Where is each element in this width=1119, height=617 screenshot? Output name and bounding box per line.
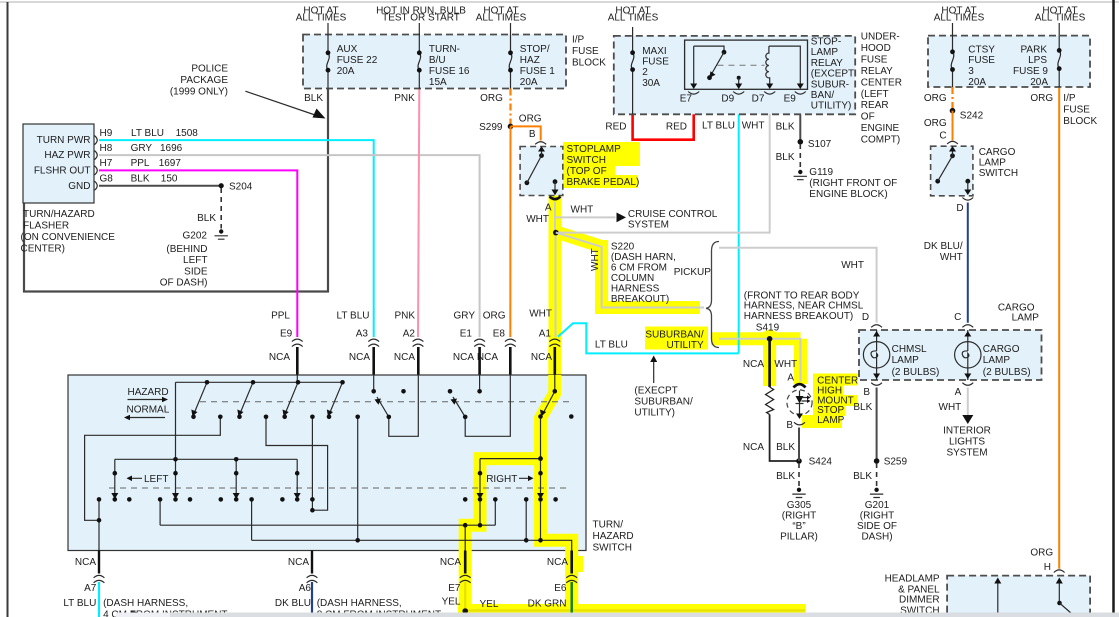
svg-text:YEL: YEL <box>442 597 461 608</box>
node S419 <box>767 336 773 342</box>
stop-lamp relay inner box <box>685 40 808 89</box>
police package arrow <box>245 91 318 116</box>
svg-text:PACKAGE: PACKAGE <box>180 75 228 86</box>
A7 exit wire <box>98 551 100 574</box>
svg-text:BLK: BLK <box>853 402 872 413</box>
svg-text:PNK: PNK <box>394 310 415 321</box>
svg-text:(LEFT: (LEFT <box>861 89 889 100</box>
svg-text:INTERIOR: INTERIOR <box>943 426 991 437</box>
svg-text:ALL TIMES: ALL TIMES <box>608 13 659 24</box>
svg-text:2: 2 <box>642 67 648 78</box>
svg-text:SIDE OF: SIDE OF <box>857 521 897 532</box>
wire WHT cargo lamp A to interior lights <box>967 388 969 417</box>
label interior lights system <box>943 426 991 459</box>
node S242 <box>950 108 956 114</box>
svg-text:HAZARD: HAZARD <box>128 387 169 398</box>
cruise control arrow <box>617 213 627 223</box>
svg-text:NCA: NCA <box>288 557 309 568</box>
svg-text:(DASH HARNESS,: (DASH HARNESS, <box>103 598 188 609</box>
wire WHT to cruise control <box>556 216 616 218</box>
relay D9 pin <box>737 76 741 80</box>
highlight: S419 NCA wire <box>763 339 776 386</box>
svg-text:RELAY: RELAY <box>811 58 843 69</box>
NCA stubs into switch box <box>297 347 555 375</box>
svg-text:ALL TIMES: ALL TIMES <box>476 13 527 24</box>
wire WHT S220 to pickup/suburban brace <box>556 233 704 308</box>
svg-text:FUSE 16: FUSE 16 <box>429 66 470 77</box>
wire LT BLU relay D9 down and to A1 junction <box>558 96 739 353</box>
E6 exit path <box>541 540 572 550</box>
svg-text:WHT: WHT <box>571 205 594 216</box>
svg-text:TURN/: TURN/ <box>593 520 624 531</box>
turn/hazard flasher box <box>23 124 94 203</box>
label hot at all times (ctsy) <box>934 6 985 24</box>
svg-text:D: D <box>956 203 963 214</box>
svg-text:H9: H9 <box>100 128 113 139</box>
svg-text:PPL: PPL <box>131 158 150 169</box>
svg-text:ORG: ORG <box>483 310 506 321</box>
wire WHT stoplamp A to S220 <box>554 202 557 338</box>
svg-text:COMPT): COMPT) <box>861 135 900 146</box>
cargo switch pin D <box>965 179 970 184</box>
svg-text:ENGINE BLOCK): ENGINE BLOCK) <box>809 189 887 200</box>
svg-text:SIDE: SIDE <box>184 266 208 277</box>
svg-text:G202: G202 <box>183 231 208 242</box>
svg-text:A6: A6 <box>299 583 312 594</box>
highlight: SUBURBAN/UTILITY label <box>645 327 708 350</box>
highlight: center high mount stop lamp label <box>813 374 857 386</box>
flasher pin arcs H9 H8 H7 G8 <box>95 136 98 191</box>
svg-text:A2: A2 <box>403 328 416 339</box>
fuse STOP/HAZ FUSE 1 feed wire <box>510 23 512 89</box>
svg-text:FUSE: FUSE <box>572 46 599 57</box>
svg-text:E7: E7 <box>680 93 693 104</box>
A3 stub and blade <box>374 375 419 436</box>
fuse TURN-B/U FUSE 16 feed wire <box>418 23 420 89</box>
svg-text:A7: A7 <box>84 583 97 594</box>
switch blade arrowheads <box>111 399 546 500</box>
A6 exit wire <box>311 551 313 574</box>
wire ORG S242 to cargo lamp switch C <box>952 111 954 141</box>
wire BLK S424 to G305 (dashed) <box>798 463 800 487</box>
wire BLK 150: flasher G8 to S204 <box>99 185 221 187</box>
wire BLK stop lamp B to S424 <box>798 428 800 462</box>
svg-text:BLOCK: BLOCK <box>1063 116 1097 127</box>
highlight: stoplamp switch label <box>563 142 640 166</box>
svg-text:DK GRN: DK GRN <box>528 599 567 610</box>
svg-text:BLK: BLK <box>131 173 150 184</box>
svg-text:20A: 20A <box>1030 77 1048 88</box>
fuse CTSY FUSE 3 <box>951 52 954 70</box>
svg-text:CENTER: CENTER <box>861 77 902 88</box>
svg-text:OF DASH): OF DASH) <box>160 278 208 289</box>
svg-text:AUX: AUX <box>337 44 358 55</box>
label G201 and location <box>857 500 897 543</box>
svg-text:PNK: PNK <box>394 93 415 104</box>
svg-text:G8: G8 <box>100 173 114 184</box>
svg-text:A1: A1 <box>539 328 552 339</box>
fuse AUX FUSE 22 <box>327 53 330 70</box>
wire DK BLU/WHT cargo switch D to cargo lamp C <box>967 203 969 323</box>
svg-text:(BEHIND: (BEHIND <box>166 244 207 255</box>
svg-text:STOP-: STOP- <box>811 37 841 48</box>
right border line <box>1112 0 1115 617</box>
svg-text:BLK: BLK <box>776 152 795 163</box>
svg-text:POLICE: POLICE <box>191 63 228 74</box>
wire GRY 1696: flasher H8 to E1 <box>99 155 480 337</box>
svg-text:ORG: ORG <box>1030 93 1053 104</box>
svg-text:DK BLU: DK BLU <box>275 598 311 609</box>
wire DK GRN below E6 <box>571 582 573 617</box>
connector E9 <box>292 339 303 346</box>
svg-text:150: 150 <box>161 173 178 184</box>
svg-text:S204: S204 <box>229 182 253 193</box>
node S107 <box>798 139 804 145</box>
svg-text:G201: G201 <box>865 500 890 511</box>
svg-text:S107: S107 <box>808 139 832 150</box>
svg-text:CARGO: CARGO <box>983 344 1020 355</box>
svg-text:FUSE: FUSE <box>968 55 995 66</box>
svg-text:STOPLAMP: STOPLAMP <box>567 144 622 155</box>
svg-text:NCA: NCA <box>531 352 552 363</box>
svg-text:1508: 1508 <box>176 128 199 139</box>
svg-text:G119: G119 <box>809 167 833 178</box>
wire ORG S299 branch to stoplamp switch B <box>511 126 541 140</box>
svg-text:BLK: BLK <box>776 442 795 453</box>
hazard blades row1 <box>194 382 343 413</box>
connector CARGO C socket <box>962 325 973 328</box>
bottom scrollbar strip <box>116 613 170 617</box>
svg-text:S220: S220 <box>611 242 635 253</box>
label G305 and location <box>780 500 818 543</box>
fuse MAXI FUSE 2 <box>631 53 634 70</box>
highlight: A1 path inside turn/hazard switch <box>541 375 572 552</box>
I/P fuse block (left) <box>303 35 566 89</box>
wire NCA S419 to resistor to S424 <box>768 339 771 387</box>
resistor (NCA) <box>766 387 774 415</box>
svg-text:E7: E7 <box>448 583 461 594</box>
svg-text:BLK: BLK <box>197 213 216 224</box>
svg-text:ORG: ORG <box>480 93 503 104</box>
dimmer switch arrows <box>997 581 999 617</box>
relay coil top link and E9 pin <box>769 46 800 86</box>
svg-text:TURN/HAZARD: TURN/HAZARD <box>23 209 95 220</box>
svg-text:LT BLU: LT BLU <box>595 340 628 351</box>
ground G201 <box>874 488 878 492</box>
svg-text:E9: E9 <box>280 328 293 339</box>
svg-text:ORG: ORG <box>519 113 542 124</box>
svg-text:B: B <box>863 387 870 398</box>
highlight: E7 / E6 NCA exits <box>465 551 572 582</box>
svg-text:FUSE 1: FUSE 1 <box>520 66 555 77</box>
highlight: A1 connector to switch box <box>548 346 561 376</box>
E7 exit wire <box>464 551 467 574</box>
svg-text:PARK: PARK <box>1021 44 1048 55</box>
connector E1 <box>474 339 485 346</box>
cargo lamp switch box <box>931 146 973 196</box>
svg-text:H7: H7 <box>100 158 113 169</box>
svg-text:DASH): DASH) <box>861 532 892 543</box>
node S259 <box>874 458 880 464</box>
node S424 <box>796 458 802 464</box>
svg-text:(DASH HARN,: (DASH HARN, <box>611 252 676 263</box>
svg-text:20A: 20A <box>968 77 986 88</box>
right row <box>480 459 541 526</box>
bottom small arrow <box>116 613 132 615</box>
svg-text:CENTER): CENTER) <box>21 244 65 255</box>
wire WHT relay D7 down to S220 <box>558 96 770 232</box>
svg-text:BAN/: BAN/ <box>811 90 835 101</box>
svg-text:E6: E6 <box>554 583 567 594</box>
svg-text:E1: E1 <box>460 328 473 339</box>
relay dashed link <box>718 64 765 66</box>
svg-text:WHT: WHT <box>529 308 552 319</box>
svg-text:E8: E8 <box>493 328 506 339</box>
wire PNK: turn-b/u fuse 16 to A2 <box>418 89 419 338</box>
svg-text:LPS: LPS <box>1028 55 1047 66</box>
pickup/suburban brace <box>706 242 719 348</box>
svg-text:BLK: BLK <box>776 122 795 133</box>
svg-text:NORMAL: NORMAL <box>127 405 170 416</box>
svg-text:ORG: ORG <box>924 93 947 104</box>
switch dashed row 1 <box>200 401 569 403</box>
connector CHMSL D socket <box>871 325 882 328</box>
highlight: stoplamp A pin / WHT wire down to S220 and A1 <box>549 173 562 346</box>
fuse PARK LPS FUSE 9 feed wire <box>1058 23 1060 87</box>
svg-text:LT BLU: LT BLU <box>702 121 735 132</box>
relay blade <box>722 50 727 55</box>
stoplamp switch pin B socket <box>535 142 546 145</box>
wire RED maxi fuse to relay E7 <box>633 96 694 140</box>
svg-text:LEFT: LEFT <box>183 255 207 266</box>
connector CHMSL B socket <box>871 383 882 386</box>
svg-text:FUSE: FUSE <box>1063 105 1090 116</box>
svg-text:D9: D9 <box>721 93 734 104</box>
TURN/HAZARD-SWITCH-BOX <box>68 375 586 551</box>
svg-text:RIGHT: RIGHT <box>486 474 517 485</box>
svg-text:I/P: I/P <box>1063 93 1076 104</box>
label hot at all times (aux) <box>296 6 347 24</box>
connector cargo switch D socket <box>962 198 973 201</box>
relay pin sockets E7 D9 D7 E9 <box>688 92 806 95</box>
label police package <box>170 63 229 97</box>
svg-text:A3: A3 <box>356 328 369 339</box>
svg-text:GND: GND <box>68 181 90 192</box>
center high mount stop lamp (LED) <box>787 390 812 415</box>
svg-text:WHT: WHT <box>590 248 601 271</box>
svg-text:S424: S424 <box>809 457 833 468</box>
wire BLK relay E9 to S107 <box>799 96 801 142</box>
connector row color labels <box>271 308 552 321</box>
svg-text:NCA: NCA <box>440 557 461 568</box>
svg-text:FLASHER: FLASHER <box>23 221 69 232</box>
fuse STOP/HAZ FUSE 1 <box>509 53 512 70</box>
SWITCH-INTERNALS <box>85 375 572 551</box>
svg-text:BLK: BLK <box>776 471 795 482</box>
svg-text:LAMP: LAMP <box>983 355 1011 366</box>
svg-text:LT BLU: LT BLU <box>131 128 164 139</box>
svg-text:NCA: NCA <box>743 442 764 453</box>
svg-text:(RIGHT: (RIGHT <box>782 511 816 522</box>
svg-text:HARNESS: HARNESS <box>611 284 660 295</box>
label hot at all times (maxi) <box>608 6 659 24</box>
svg-text:B/U: B/U <box>429 55 446 66</box>
svg-text:FUSE: FUSE <box>642 57 669 68</box>
switch internal dots <box>97 380 574 543</box>
svg-text:SUBURBAN/: SUBURBAN/ <box>634 396 693 407</box>
svg-text:(2 BULBS): (2 BULBS) <box>892 367 940 378</box>
svg-text:LAMP: LAMP <box>1012 313 1040 324</box>
top border line <box>0 1 1119 3</box>
highlight: YEL wire bottom run <box>458 582 806 611</box>
label PARK LPS FUSE 9 20A <box>1013 44 1048 87</box>
switch dashed row 2 <box>109 487 569 489</box>
headlamp and panel dimmer switch box <box>947 576 1090 617</box>
E6 exit wire <box>570 551 573 574</box>
svg-text:TURN PWR: TURN PWR <box>37 135 91 146</box>
highlight: S419 WHT wire <box>711 339 801 384</box>
svg-text:D7: D7 <box>752 93 765 104</box>
svg-text:LAMP: LAMP <box>811 47 839 58</box>
connector A1 <box>549 339 560 346</box>
wire BLK S204 to G202 (dashed) <box>220 188 222 229</box>
highlight: E6 DK GRN stub <box>565 582 578 612</box>
svg-text:SYSTEM: SYSTEM <box>946 447 987 458</box>
svg-text:NCA: NCA <box>547 557 568 568</box>
fuse AUX FUSE 22 feed wire <box>327 23 329 89</box>
svg-text:PILLAR): PILLAR) <box>780 532 818 543</box>
svg-text:1696: 1696 <box>160 143 183 154</box>
svg-text:ALL TIMES: ALL TIMES <box>934 13 985 24</box>
svg-text:LT BLU: LT BLU <box>337 310 370 321</box>
svg-text:CARGO: CARGO <box>979 147 1016 158</box>
svg-text:WHT: WHT <box>841 260 864 271</box>
relay D7 pin <box>768 78 771 87</box>
svg-text:GRY: GRY <box>131 143 153 154</box>
svg-text:UTILITY): UTILITY) <box>811 101 852 112</box>
CHMSL bulb <box>863 342 889 368</box>
svg-text:B: B <box>786 420 793 431</box>
svg-text:NCA: NCA <box>743 359 764 370</box>
top bus <box>176 381 345 383</box>
svg-text:LT BLU: LT BLU <box>63 598 96 609</box>
svg-text:A: A <box>545 203 552 214</box>
svg-text:PICKUP: PICKUP <box>674 267 712 278</box>
A1 stub and blade <box>543 375 555 414</box>
highlight: S220 branch wire <box>553 231 600 246</box>
hazard/normal arrows <box>128 400 166 418</box>
svg-text:ALL TIMES: ALL TIMES <box>1035 13 1086 24</box>
ground G119 <box>798 170 802 174</box>
connector A2 <box>413 339 424 346</box>
svg-text:C: C <box>939 130 946 141</box>
svg-text:HAZARD: HAZARD <box>593 531 634 542</box>
svg-text:WHT: WHT <box>526 214 549 225</box>
svg-text:20A: 20A <box>520 77 538 88</box>
svg-text:D: D <box>862 312 869 323</box>
svg-text:ENGINE: ENGINE <box>861 123 900 134</box>
underhood fuse relay center box <box>614 36 855 114</box>
svg-text:RED: RED <box>605 122 626 133</box>
svg-text:15A: 15A <box>429 77 447 88</box>
svg-text:(DASH HARNESS,: (DASH HARNESS, <box>317 598 402 609</box>
svg-text:COLUMN: COLUMN <box>611 273 654 284</box>
connector row NCA labels <box>269 352 552 363</box>
svg-text:A: A <box>955 387 962 398</box>
svg-text:S242: S242 <box>960 110 984 121</box>
svg-text:ALL TIMES: ALL TIMES <box>296 13 347 24</box>
svg-text:NCA: NCA <box>453 352 474 363</box>
svg-text:(RIGHT FRONT OF: (RIGHT FRONT OF <box>809 178 897 189</box>
svg-text:A: A <box>787 372 794 383</box>
svg-text:LAMP: LAMP <box>817 415 845 426</box>
wire YEL below E7 <box>465 582 805 611</box>
wire ORG fuse1 to S299 (dash-dot) <box>509 89 511 125</box>
svg-text:H: H <box>1044 562 1051 573</box>
svg-text:30A: 30A <box>642 78 660 89</box>
connector A6 <box>307 575 318 582</box>
svg-text:CTSY: CTSY <box>968 44 995 55</box>
label hot at all times (stop/haz) <box>476 6 527 24</box>
svg-text:UTILITY): UTILITY) <box>634 407 675 418</box>
wire BLK S259 to G201 (dashed) <box>876 463 878 487</box>
svg-text:1697: 1697 <box>159 158 182 169</box>
svg-text:ORG: ORG <box>1030 548 1053 559</box>
svg-text:SUBUR-: SUBUR- <box>811 79 849 90</box>
svg-text:“B”: “B” <box>792 521 805 532</box>
svg-text:S299: S299 <box>479 122 503 133</box>
svg-text:S419: S419 <box>756 322 780 333</box>
node S220 <box>553 230 559 236</box>
svg-text:RELAY: RELAY <box>861 66 893 77</box>
svg-text:(EXECPT: (EXECPT <box>634 385 677 396</box>
svg-text:BRAKE PEDAL): BRAKE PEDAL) <box>567 177 640 188</box>
label hot in run (turn fuse) <box>376 6 466 24</box>
stoplamp switch pin A socket (highlighted) <box>550 197 561 200</box>
svg-text:HARNESS BREAKOUT): HARNESS BREAKOUT) <box>744 311 853 322</box>
fuse PARK LPS FUSE 9 <box>1058 50 1061 68</box>
svg-text:3: 3 <box>968 66 974 77</box>
svg-text:E9: E9 <box>784 93 797 104</box>
node on YEL wire <box>462 608 468 614</box>
node S204 <box>219 183 224 188</box>
wire BLK S107 to G119 (dashed) <box>799 144 801 169</box>
I/P fuse block (right) <box>928 36 1090 87</box>
node S299 <box>508 124 514 130</box>
svg-text:UTILITY: UTILITY <box>666 340 704 351</box>
svg-text:(TOP OF: (TOP OF <box>567 166 607 177</box>
contact risers bottom <box>160 499 540 550</box>
svg-text:SYSTEM: SYSTEM <box>628 219 669 230</box>
HIGHLIGHTS-LAYER <box>458 142 857 612</box>
svg-text:LEFT: LEFT <box>144 474 168 485</box>
wire LT BLU 1508: flasher H9 to A3 <box>99 140 374 337</box>
svg-text:HAZ PWR: HAZ PWR <box>44 150 90 161</box>
connector E6 <box>566 575 577 582</box>
ground G202 <box>219 229 223 233</box>
label G202 and location <box>160 231 208 289</box>
svg-text:WHT: WHT <box>940 252 963 263</box>
chmsl/cargo lamp box <box>859 330 1042 380</box>
WIRES-LAYER <box>24 87 1059 617</box>
svg-text:NCA: NCA <box>269 352 290 363</box>
wire WHT brace to S419 and CHMSL lamp A <box>719 339 801 382</box>
svg-text:STOP/: STOP/ <box>520 44 550 55</box>
connector A7 <box>94 575 105 582</box>
svg-text:TURN-: TURN- <box>429 44 460 55</box>
svg-text:6 CM FROM: 6 CM FROM <box>611 263 667 274</box>
svg-text:RED: RED <box>666 122 687 133</box>
